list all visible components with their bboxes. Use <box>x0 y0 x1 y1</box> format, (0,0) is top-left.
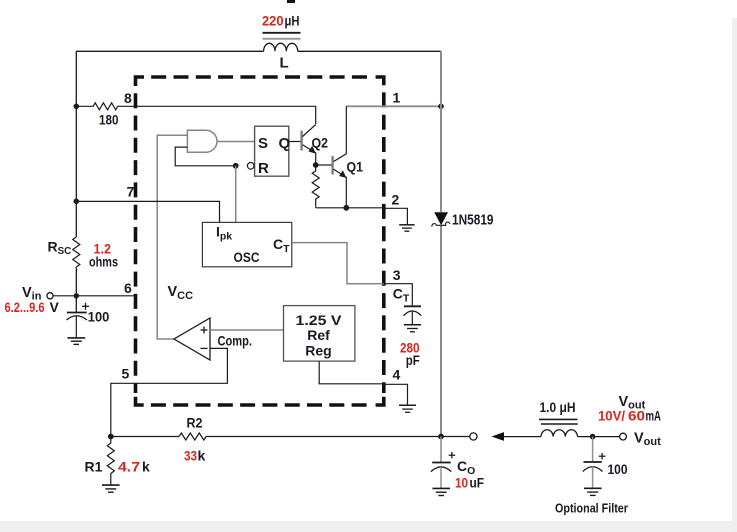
wire comparator minus to pin5 <box>111 348 228 436</box>
ground R1 <box>102 485 120 492</box>
svg-text:OSC: OSC <box>234 249 260 265</box>
wire top rail <box>76 50 441 52</box>
resistor 180 <box>76 103 135 110</box>
transistor Q2 <box>302 125 316 166</box>
arrow to optional filter <box>492 432 505 441</box>
wire AND bottom input from R node <box>175 147 236 166</box>
wire CT cap to ground <box>411 312 413 325</box>
wire node to Q1 base <box>316 164 332 166</box>
plus sign input cap <box>82 303 89 310</box>
svg-text:1N5819: 1N5819 <box>452 213 494 229</box>
wire R2 to output node <box>206 436 470 438</box>
capacitor 100 input <box>67 313 88 321</box>
filter inductor core bars <box>539 418 578 420</box>
wire R node to Ipk block (gray) <box>235 166 237 223</box>
wire pin3 to CT cap <box>384 284 413 306</box>
svg-text:R: R <box>258 160 269 177</box>
plus sign CO <box>449 452 456 458</box>
inductor 1.0uH <box>541 430 578 437</box>
value 10V/60mA <box>598 409 661 424</box>
svg-text:5: 5 <box>122 366 130 382</box>
svg-text:Q1: Q1 <box>347 159 364 175</box>
label 1.25 V Ref Reg <box>296 312 343 359</box>
svg-text:4: 4 <box>393 367 401 383</box>
SR latch box <box>255 126 289 176</box>
svg-text:R2: R2 <box>187 415 203 431</box>
wire AND output to S input <box>217 141 255 143</box>
node R junction <box>233 163 239 169</box>
wire Q output to Q2 base <box>289 141 301 143</box>
right page band <box>732 18 737 532</box>
value 4.7 k <box>118 459 150 475</box>
node Q2 emitter junction <box>313 162 319 168</box>
wire pin6 <box>53 295 135 297</box>
svg-text:1.25 V: 1.25 V <box>296 312 343 328</box>
AND gate U-A <box>187 130 217 152</box>
resistor Rsc <box>73 237 80 267</box>
wire left rail <box>75 51 77 312</box>
capacitor 100 filter <box>592 437 594 462</box>
svg-text:uF: uF <box>470 474 485 490</box>
IC dashed boundary <box>136 77 384 405</box>
ground pin4 <box>399 405 416 412</box>
node pin8 junction <box>74 104 80 110</box>
ground CT <box>404 325 421 332</box>
node pin1 junction <box>438 104 444 110</box>
ground pin2 <box>399 225 414 231</box>
diode 1N5819 <box>432 212 450 226</box>
reference regulator block <box>284 306 355 362</box>
resistor R2 <box>179 433 206 440</box>
value label 220uH <box>262 13 300 29</box>
resistor R1 <box>107 437 114 485</box>
svg-text:100: 100 <box>88 309 110 325</box>
capacitor CO <box>440 437 442 463</box>
wire ref reg to pin4 <box>319 361 407 405</box>
wire pin2 line <box>316 208 408 225</box>
wire feedback line <box>111 436 179 438</box>
value 280 pF <box>400 340 420 368</box>
inductor L 220uH <box>264 43 298 51</box>
svg-text:33: 33 <box>184 448 197 464</box>
value 33 k <box>184 448 206 464</box>
terminal open circle <box>470 433 477 440</box>
ground CO <box>432 488 450 495</box>
svg-text:V: V <box>50 299 60 315</box>
svg-text:Optional Filter: Optional Filter <box>555 501 628 516</box>
wire CT output to pin3 <box>292 243 384 284</box>
wire comparator output to AND top input (Vcc net) <box>157 135 187 339</box>
svg-text:Ref: Ref <box>307 327 330 343</box>
inductor core bar gray <box>263 38 301 40</box>
transistor Q1 <box>333 106 347 208</box>
svg-text:R1: R1 <box>85 459 103 475</box>
svg-text:220: 220 <box>262 13 284 29</box>
wire pin8 internal to Q2 collector <box>136 106 316 124</box>
svg-text:Comp.: Comp. <box>218 334 253 349</box>
node output junction <box>438 434 444 440</box>
plus sign filter cap <box>599 453 606 459</box>
svg-text:7: 7 <box>127 184 135 200</box>
svg-text:6.2...9.6: 6.2...9.6 <box>5 299 45 315</box>
svg-text:ohms: ohms <box>89 254 118 270</box>
node Q1 emitter junction <box>343 205 349 211</box>
wire input cap to ground <box>75 316 77 338</box>
capacitor CT <box>404 306 422 315</box>
svg-text:10V/: 10V/ <box>598 409 625 424</box>
svg-text:Q2: Q2 <box>312 135 329 151</box>
svg-text:10: 10 <box>455 474 468 490</box>
svg-text:pF: pF <box>406 352 420 368</box>
comparator minus <box>201 347 208 349</box>
node filter output junction <box>590 434 596 440</box>
svg-text:k: k <box>142 459 150 475</box>
svg-text:k: k <box>198 448 206 464</box>
svg-text:S: S <box>258 135 268 152</box>
inductor core bar black <box>263 32 301 34</box>
terminal Vout circle <box>620 433 627 440</box>
node pin6 junction <box>74 293 79 298</box>
svg-text:μH: μH <box>285 13 300 29</box>
svg-text:1.0 μH: 1.0 μH <box>540 400 576 415</box>
svg-text:mA: mA <box>646 409 662 424</box>
comparator plus <box>201 327 208 334</box>
wire pin1 from Q1 collector to right rail <box>346 105 441 107</box>
wire pin7 to Ipk block <box>76 201 219 222</box>
svg-text:Q: Q <box>279 135 291 152</box>
value 10 uF <box>455 474 484 490</box>
svg-text:8: 8 <box>124 90 132 106</box>
wire filter cap to ground <box>592 467 594 489</box>
value 6.2...9.6 V <box>5 299 60 315</box>
Ipk OSC block <box>202 222 291 266</box>
R inversion bubble <box>247 163 254 170</box>
comparator <box>174 318 210 360</box>
svg-text:100: 100 <box>608 461 628 477</box>
latch labels S Q R <box>258 135 291 177</box>
svg-text:60: 60 <box>628 409 645 424</box>
svg-text:3: 3 <box>393 267 401 283</box>
svg-text:1: 1 <box>393 90 401 106</box>
ground input cap <box>67 338 85 345</box>
wire CO to ground <box>440 467 442 488</box>
terminal Vin <box>47 293 53 299</box>
bottom page band <box>0 521 737 532</box>
value 1.2 ohms <box>89 241 118 270</box>
resistor Q2 emitter to pin2 <box>312 165 319 208</box>
svg-text:Reg: Reg <box>305 343 331 359</box>
svg-text:L: L <box>280 55 289 72</box>
svg-text:180: 180 <box>99 112 119 128</box>
svg-text:4.7: 4.7 <box>118 459 140 475</box>
node feedback junction <box>108 434 114 440</box>
node pin7 junction <box>74 199 80 205</box>
wire right rail gray <box>440 51 442 436</box>
wire arrow to filter inductor <box>503 436 541 438</box>
ground filter cap <box>584 488 602 495</box>
wire inductor to vout node <box>578 436 620 438</box>
wire ref to comparator plus <box>210 329 284 331</box>
svg-text:2: 2 <box>392 192 400 208</box>
cropped title remnant <box>287 0 295 3</box>
svg-text:6: 6 <box>124 280 132 296</box>
